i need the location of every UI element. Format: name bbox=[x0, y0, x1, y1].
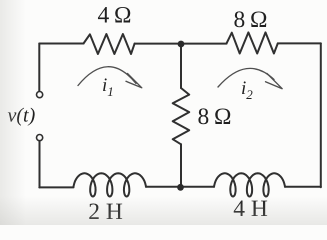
wire bottom middle bbox=[146, 186, 214, 188]
resistor R1 4 ohm bbox=[84, 34, 135, 54]
svg-text:4 Ω: 4 Ω bbox=[98, 3, 132, 29]
resistor R3 8 ohm middle bbox=[173, 88, 190, 144]
wire left upper vertical bbox=[38, 44, 40, 92]
node junction top bbox=[178, 41, 185, 48]
wire bottom-left horizontal bbox=[39, 186, 73, 188]
wire bottom-right horizontal bbox=[285, 186, 321, 188]
resistor R2 8 ohm top bbox=[227, 32, 278, 53]
terminal circle lower bbox=[37, 135, 43, 141]
svg-text:8 Ω: 8 Ω bbox=[234, 7, 268, 33]
mesh current arrow i2 bbox=[218, 68, 274, 87]
wire right vertical bbox=[320, 43, 322, 187]
wire middle lower vertical bbox=[180, 144, 182, 187]
wire top middle bbox=[135, 43, 227, 45]
inductor L1 2 H bbox=[74, 173, 147, 196]
inductor L2 4 H bbox=[214, 173, 285, 196]
node junction bottom bbox=[177, 184, 184, 191]
terminal circle upper bbox=[37, 92, 43, 98]
wire middle upper vertical bbox=[180, 44, 182, 88]
wire top-left horizontal bbox=[39, 43, 83, 45]
wire left lower vertical bbox=[39, 141, 41, 188]
svg-text:8 Ω: 8 Ω bbox=[198, 104, 232, 130]
mesh current arrow i1 bbox=[78, 67, 136, 86]
wire top-right horizontal bbox=[278, 42, 321, 44]
